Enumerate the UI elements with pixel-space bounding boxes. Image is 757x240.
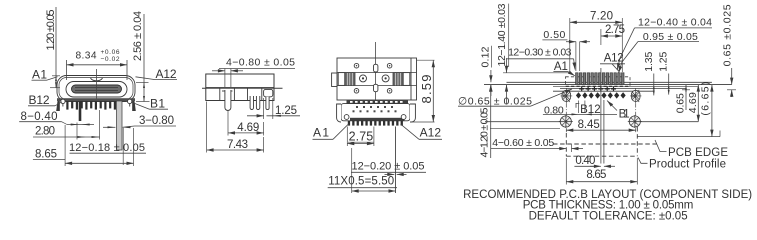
svg-text:0.40: 0.40	[575, 155, 595, 167]
svg-text:Product Profile: Product Profile	[649, 158, 726, 170]
housing ear circles	[344, 115, 349, 120]
dim 2.80	[33, 110, 100, 140]
smt bracket right	[264, 89, 273, 96]
dim 12-0.40 +-0.04	[617, 17, 712, 71]
dim 7.43	[207, 102, 264, 153]
svg-text:12−0.20 ± 0.05: 12−0.20 ± 0.05	[352, 161, 425, 173]
svg-text:8−0.40: 8−0.40	[21, 111, 58, 123]
dim 0.40	[574, 155, 615, 167]
left reference segment lower pad	[485, 121, 560, 123]
svg-text:2.56 ± 0.04: 2.56 ± 0.04	[132, 11, 144, 61]
dim 2.75 view3	[347, 127, 374, 194]
svg-text:A12: A12	[604, 53, 624, 65]
svg-text:0.65 ±0.025: 0.65 ±0.025	[722, 4, 734, 66]
label B1 view4	[607, 101, 630, 121]
dim 4-1.20 +-0.05 vertical	[479, 85, 491, 158]
top notch	[91, 78, 103, 81]
dim 1.25 vertical right	[658, 52, 670, 95]
dim 4.69	[228, 111, 264, 136]
small screw circles	[354, 63, 392, 93]
svg-text:12−0.30 ± 0.03: 12−0.30 ± 0.03	[508, 47, 572, 59]
centerline view3	[375, 42, 377, 100]
svg-text:2.80: 2.80	[35, 126, 55, 138]
left hatched block	[345, 73, 355, 86]
dim 0.50	[542, 29, 590, 71]
svg-text:A1: A1	[32, 68, 47, 82]
dim 12-0.30 +-0.03	[507, 47, 575, 70]
dim 8.59 vertical	[410, 60, 435, 122]
svg-text:B12: B12	[29, 93, 50, 107]
12 contact pins front	[66, 101, 116, 110]
dim 4-0.60 +-0.05	[491, 137, 583, 152]
left wing	[337, 104, 341, 122]
svg-text:B12: B12	[580, 104, 601, 116]
dim 7.20	[570, 11, 623, 73]
long measured pin	[79, 101, 82, 121]
dim dia 0.65 +-0.025	[458, 89, 572, 108]
svg-text:3−0.80: 3−0.80	[139, 115, 174, 127]
lower housing side	[206, 88, 274, 100]
housing inner lines	[220, 88, 262, 100]
centerline latch tabs	[374, 64, 378, 72]
svg-text:A12: A12	[420, 125, 442, 139]
label A12 view1	[136, 67, 178, 81]
label Product Profile	[638, 158, 726, 171]
dim 0.80	[543, 101, 617, 117]
svg-text:B1: B1	[150, 97, 165, 111]
centerline view1	[96, 69, 98, 106]
dim 8.65 view1	[33, 125, 134, 166]
A row hole crosses	[579, 86, 616, 91]
label A1 view1	[32, 68, 58, 82]
left upper stadium pad	[561, 89, 573, 104]
through-hole leg left	[225, 90, 231, 111]
wide shield pin	[117, 101, 123, 150]
left mounting leg	[56, 101, 60, 111]
through-hole legs middle	[250, 96, 253, 109]
dim 12-0.18 +-0.05	[69, 128, 146, 165]
svg-text:1.20 ±0.05: 1.20 ±0.05	[45, 10, 57, 51]
svg-text:A12: A12	[156, 67, 177, 81]
right reference segment lower pad	[640, 121, 698, 123]
svg-text:4−1.20 ± 0.05: 4−1.20 ± 0.05	[479, 107, 491, 157]
6.65 reference line	[637, 136, 720, 138]
contact dots rows	[353, 106, 397, 112]
right hatched block	[393, 73, 403, 86]
svg-text:0.12: 0.12	[479, 46, 491, 67]
dim 1.35 vertical	[643, 52, 655, 96]
svg-text:7.43: 7.43	[227, 139, 248, 151]
dim 2.75 view4	[601, 24, 625, 45]
housing back top strip with pin slots	[347, 100, 409, 103]
pad column centerlines dashed	[565, 104, 567, 134]
left lower circle pad	[559, 115, 573, 128]
right upper stadium pad	[630, 89, 641, 104]
tongue	[72, 85, 122, 93]
svg-text:8.45: 8.45	[578, 119, 600, 131]
dim 8.45	[490, 119, 636, 131]
svg-text:8.34: 8.34	[76, 51, 97, 62]
label A1 view3	[313, 124, 349, 139]
right inner rect	[403, 73, 410, 86]
right lower circle pad	[628, 115, 642, 128]
dark band above pins	[350, 118, 405, 121]
svg-text:4.69: 4.69	[687, 92, 699, 113]
inner pill opening	[66, 82, 127, 98]
svg-text:8.65: 8.65	[35, 148, 57, 160]
svg-text:2.75: 2.75	[605, 24, 625, 36]
dim 4.69 vertical right	[687, 85, 699, 122]
vertical centerline pair	[600, 68, 602, 164]
svg-text:4.69: 4.69	[237, 122, 259, 134]
label B12 view4	[576, 103, 601, 115]
svg-text:12−1.40 ±0.03: 12−1.40 ±0.03	[496, 3, 508, 66]
bottom flange bar	[57, 98, 135, 101]
svg-text:DEFAULT TOLERANCE: ±0.05: DEFAULT TOLERANCE: ±0.05	[529, 211, 688, 223]
label PCB EDGE	[655, 140, 728, 159]
right inner wall line	[410, 58, 412, 100]
right ear circle	[128, 99, 132, 106]
right wing	[410, 104, 415, 122]
svg-text:1.35: 1.35	[643, 52, 655, 72]
dim 8.34 +0.06 -0.02	[67, 49, 128, 80]
svg-text:2.75: 2.75	[349, 130, 374, 144]
pcb edge dashed line	[553, 143, 658, 145]
right small pin	[266, 97, 269, 110]
dim 3-0.80	[103, 115, 176, 128]
body rect	[337, 58, 417, 100]
svg-text:0.65: 0.65	[675, 93, 687, 113]
svg-text:PCB EDGE: PCB EDGE	[668, 147, 728, 159]
left inner rect	[338, 73, 345, 86]
svg-text:8.59: 8.59	[419, 75, 434, 104]
product profile dashed outline	[566, 127, 637, 156]
dim 12-0.20 +-0.05 view3	[351, 127, 426, 194]
dim 4-0.80 +-0.05	[212, 57, 295, 87]
svg-text:1.25: 1.25	[658, 52, 670, 72]
shell outer pill	[57, 76, 135, 102]
dim 1.25	[247, 98, 300, 119]
12 smt pads	[576, 73, 624, 85]
dim 0.12 vertical	[479, 46, 491, 96]
dim 1.20 +-0.05 vertical	[45, 7, 60, 88]
dim 8.65 view4	[566, 158, 637, 185]
svg-text:B1: B1	[619, 108, 630, 120]
dim 0.95 +-0.05	[619, 31, 700, 73]
dim 0.65 +-0.025 top right vertical	[722, 4, 737, 97]
svg-text:12−0.40 ± 0.04: 12−0.40 ± 0.04	[638, 17, 712, 29]
footprint dashed outline	[566, 77, 631, 86]
svg-text:A1: A1	[313, 125, 329, 139]
label A12 view3	[401, 124, 443, 139]
label A1 view4	[553, 61, 574, 76]
svg-text:0.50: 0.50	[543, 29, 565, 41]
housing back body	[341, 104, 410, 121]
svg-text:4−0.60 ± 0.05: 4−0.60 ± 0.05	[492, 137, 554, 149]
A-B row line	[553, 90, 653, 92]
left outer tab	[332, 73, 337, 87]
reference line rows	[484, 82, 732, 88]
right mounting leg	[132, 101, 136, 111]
left ear circle	[61, 99, 65, 106]
dim 2.56 +-0.04 vertical	[132, 11, 150, 102]
pin teeth row	[348, 121, 403, 126]
svg-text:8.65: 8.65	[586, 169, 606, 181]
svg-text:−0.02: −0.02	[101, 56, 120, 63]
dim 12-1.40 +-0.03 vertical	[496, 3, 570, 104]
label A12 view4	[600, 53, 625, 73]
label B1 view1	[131, 97, 168, 111]
svg-text:(6.65): (6.65)	[700, 82, 712, 116]
svg-text:11X0.5=5.50: 11X0.5=5.50	[328, 176, 394, 188]
label B12 view1	[28, 93, 62, 107]
dim 0.65 vertical mid	[675, 85, 690, 114]
svg-text:4−0.80 ± 0.05: 4−0.80 ± 0.05	[226, 57, 295, 69]
big rivet circles	[360, 75, 390, 82]
shell body side	[206, 74, 274, 88]
dim 11X0.5=5.50 view3	[328, 176, 397, 191]
B row hole diamonds	[576, 92, 626, 98]
svg-text:7.20: 7.20	[590, 11, 613, 23]
pcb surface line	[202, 87, 283, 89]
dim (6.65) vertical right	[700, 82, 712, 137]
dim 8-0.40	[19, 111, 94, 126]
